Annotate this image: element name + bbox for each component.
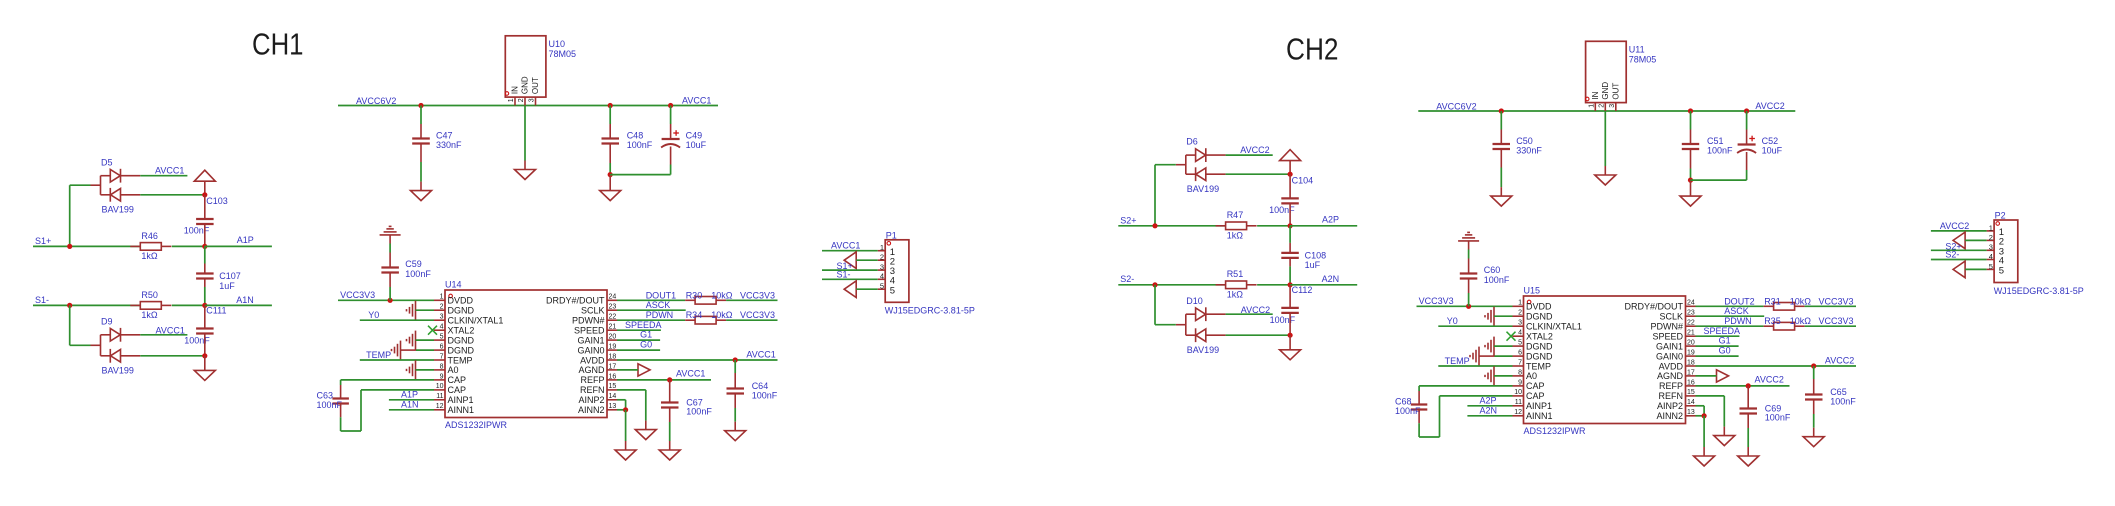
svg-text:23: 23 (609, 304, 617, 311)
wire D6 to trunk (1226, 173, 1291, 175)
wire VCC3V3 to pin1 (1417, 305, 1513, 307)
wire AVCC6V2 rail (338, 105, 718, 107)
svg-text:22: 22 (1687, 320, 1695, 327)
wire pin22 to R35 (1696, 325, 1764, 327)
wire AINN2 pin13 (617, 409, 626, 411)
net label SPEEDA (625, 320, 662, 330)
resistor R47 1k (1216, 210, 1257, 240)
net label G0 (1719, 345, 1731, 355)
capacitor C67 100nF (661, 397, 712, 416)
svg-text:AVCC2: AVCC2 (1240, 145, 1269, 155)
resistor R35 10k pullup (1764, 322, 1805, 330)
net label AVCC2 at REFP (1755, 375, 1784, 385)
wire R46 to trunk (172, 245, 205, 247)
junction AINP2/AINN2 (1702, 413, 1707, 418)
power symbol DGND pin8 (1485, 366, 1494, 385)
wire S1- row left (33, 304, 140, 306)
wire riser S1- to D9 (70, 305, 91, 345)
resistor R51 1k (1216, 269, 1257, 299)
regulator U11 78M05 (1585, 41, 1656, 111)
wire AINN2 down to ground (1703, 416, 1705, 447)
connector P1 WJ15EDGRC-3.81-5P body (878, 230, 975, 315)
power symbol DGND pin2 (407, 301, 416, 320)
svg-text:12: 12 (1514, 409, 1522, 416)
power arrow at AGND pin17 (1717, 370, 1729, 382)
svg-text:REFN: REFN (580, 385, 605, 395)
wire A1P to pin11 (389, 399, 434, 401)
svg-text:D6: D6 (1186, 137, 1198, 147)
svg-text:ASCK: ASCK (646, 300, 671, 310)
svg-text:10uF: 10uF (686, 140, 707, 150)
wire TEMP to pin7 (1438, 365, 1512, 367)
svg-text:3: 3 (880, 263, 884, 272)
wire pin2 DGND (416, 309, 435, 311)
net label G1 (640, 330, 652, 340)
svg-text:G1: G1 (1719, 336, 1731, 346)
wire pin24 to R31 (1696, 305, 1764, 307)
svg-text:21: 21 (1687, 330, 1695, 337)
svg-text:DGND: DGND (1526, 351, 1553, 361)
net label G0 (640, 339, 652, 349)
wire S2- row left (1118, 284, 1225, 286)
wire REFN pin15 to ground (1696, 396, 1725, 427)
junction rail/C47 (418, 103, 423, 108)
net label AVCC2 at pin1 (1940, 221, 1969, 231)
wire arrow to pin2 (1965, 239, 1987, 241)
svg-text:VCC3V3: VCC3V3 (1419, 296, 1454, 306)
svg-text:21: 21 (609, 324, 617, 331)
net label PDWN (1724, 316, 1752, 326)
svg-text:TEMP: TEMP (1445, 356, 1470, 366)
svg-text:A1N: A1N (236, 295, 254, 305)
wire REFP pin16 AVCC1 (617, 379, 711, 381)
wire AVDD to C64 (734, 360, 736, 389)
svg-text:C49: C49 (686, 131, 703, 141)
svg-text:ASCK: ASCK (1724, 306, 1749, 316)
wire arrow to pin2 (856, 259, 878, 261)
svg-text:2: 2 (1989, 233, 1993, 242)
wire Y0 to pin3 (1438, 325, 1512, 327)
svg-text:AINN2: AINN2 (1656, 411, 1683, 421)
svg-text:2: 2 (1599, 104, 1606, 108)
net label S1+ at pin3 (837, 261, 853, 271)
svg-text:AVCC2: AVCC2 (1825, 356, 1854, 366)
wire rail to C47 (420, 106, 422, 139)
svg-text:C63: C63 (317, 390, 334, 400)
wire pin6 DGND (401, 349, 435, 351)
net label S2- at pin4 (1945, 250, 1959, 260)
net label VCC3V3 pullup2 (740, 310, 775, 320)
junction C48/C49 bottom (608, 172, 613, 177)
resistor R31 10k pullup (1764, 303, 1805, 311)
svg-text:5: 5 (1989, 262, 1993, 271)
wire trunk below cap (1289, 313, 1291, 335)
net label AVCC2 lower (1241, 305, 1270, 315)
wire pin17 to arrow (1696, 375, 1717, 377)
ground below C65 (1803, 428, 1824, 447)
svg-text:16: 16 (609, 373, 617, 380)
title CH2 (1286, 31, 1339, 66)
svg-text:REFP: REFP (1659, 381, 1683, 391)
wire pin2 DGND (1494, 315, 1513, 317)
wire R31 to VCC3V3 (1805, 305, 1856, 307)
svg-text:U14: U14 (445, 280, 462, 290)
wire A2P stub (1290, 225, 1357, 227)
connector P2 WJ15EDGRC-3.81-5P body (1987, 211, 2084, 296)
power arrow pin5 (1953, 261, 1965, 278)
net label A2N (1322, 274, 1340, 284)
net label AVCC1 lower (156, 325, 185, 335)
svg-text:3: 3 (1989, 243, 1993, 252)
wire AVCC1 to pin1 (822, 250, 878, 252)
svg-text:4: 4 (880, 272, 884, 281)
svg-text:100nF: 100nF (184, 226, 210, 236)
wire REFN pin15 to ground (617, 390, 646, 421)
svg-text:AVCC1: AVCC1 (676, 369, 705, 379)
svg-text:G1: G1 (640, 330, 652, 340)
svg-text:XTAL2: XTAL2 (448, 326, 475, 336)
junction trunk/D6 (1288, 172, 1293, 177)
svg-text:100nF: 100nF (627, 140, 653, 150)
svg-text:AVDD: AVDD (580, 355, 605, 365)
svg-text:Y0: Y0 (368, 310, 379, 320)
net label VCC3V3 pullup2 (1819, 316, 1854, 326)
svg-text:330nF: 330nF (1516, 146, 1542, 156)
net label A1N (236, 295, 254, 305)
diode D5 BAV199 dual diode (91, 157, 141, 214)
svg-text:VCC3V3: VCC3V3 (740, 310, 775, 320)
svg-text:REFP: REFP (580, 375, 604, 385)
svg-text:A1P: A1P (237, 235, 254, 245)
svg-text:C108: C108 (1305, 251, 1327, 261)
svg-text:10kΩ: 10kΩ (711, 291, 733, 301)
wire trunk upper segment (204, 195, 206, 219)
power symbol DGND bars (1458, 232, 1479, 241)
net label AVCC1 (155, 166, 184, 176)
power arrow at AGND pin17 (638, 364, 650, 376)
svg-text:CLKIN/XTAL1: CLKIN/XTAL1 (448, 316, 504, 326)
svg-text:100nF: 100nF (1707, 146, 1733, 156)
svg-text:6: 6 (440, 343, 444, 350)
svg-text:C111: C111 (206, 306, 226, 316)
wire pin22 to R34 (617, 319, 685, 321)
svg-text:D5: D5 (101, 157, 113, 167)
svg-text:GND: GND (1601, 82, 1610, 100)
svg-text:AVDD: AVDD (1659, 361, 1684, 371)
diode D6 BAV199 dual diode (1176, 137, 1226, 194)
op-amp IC U14 ADS1232IPWR body (434, 280, 617, 431)
svg-text:AGND: AGND (578, 365, 605, 375)
net label TEMP (1445, 356, 1470, 366)
wire rail to C50 (1500, 111, 1502, 144)
ground below U10 (515, 161, 536, 180)
labels R31 (1764, 297, 1811, 307)
svg-text:10kΩ: 10kΩ (1790, 297, 1812, 307)
labels R34 (686, 310, 733, 320)
capacitor C69 100nF (1740, 403, 1791, 422)
svg-text:R46: R46 (141, 231, 158, 241)
ground below REFN (1714, 427, 1735, 446)
svg-text:PDWN: PDWN (1724, 316, 1752, 326)
svg-text:U11: U11 (1629, 45, 1645, 55)
svg-text:S2+: S2+ (1120, 216, 1136, 226)
wire trunk below C107 (204, 279, 206, 306)
svg-text:5: 5 (880, 282, 884, 291)
wire A2N to pin12 (1467, 415, 1512, 417)
svg-text:DGND: DGND (448, 345, 475, 355)
svg-text:WJ15EDGRC-3.81-5P: WJ15EDGRC-3.81-5P (885, 306, 975, 316)
wire U10 GND pin down (524, 106, 526, 161)
wire S2- to pin4 (1931, 259, 1987, 261)
svg-text:AINN2: AINN2 (578, 405, 605, 415)
capacitor C107 1uF (196, 271, 241, 291)
junction AINP2/AINN2 (623, 407, 628, 412)
svg-text:C64: C64 (752, 381, 769, 391)
svg-text:DVDD: DVDD (448, 296, 474, 306)
svg-text:S1-: S1- (837, 269, 851, 279)
svg-text:15: 15 (1687, 389, 1695, 396)
power symbol AVCC1 arrow (194, 170, 215, 195)
svg-text:D10: D10 (1186, 296, 1203, 306)
labels C112 (1270, 285, 1313, 325)
wire A1N stub (205, 304, 272, 306)
svg-text:16: 16 (1687, 379, 1695, 386)
junction VCC3V3/C60 (1466, 304, 1471, 309)
svg-text:1uF: 1uF (219, 281, 235, 291)
wire A1P stub (205, 245, 272, 247)
wire S1+ to pin3 (822, 269, 878, 271)
svg-text:SPEED: SPEED (1652, 332, 1683, 342)
svg-text:XTAL2: XTAL2 (1526, 332, 1553, 342)
junction AVDD/C65 (1811, 363, 1816, 368)
svg-text:10kΩ: 10kΩ (711, 310, 733, 320)
wire C52 bottom (1691, 152, 1747, 180)
wire G0 pin19 (1696, 355, 1739, 357)
power arrow pin2 (844, 252, 856, 269)
wire pin5 DGND (416, 339, 435, 341)
svg-text:C50: C50 (1516, 136, 1533, 146)
svg-text:13: 13 (609, 403, 617, 410)
svg-text:R34: R34 (686, 310, 703, 320)
svg-text:20: 20 (609, 334, 617, 341)
wire C67 to ground (669, 408, 671, 442)
net label S2+ at pin3 (1945, 241, 1961, 251)
wire AVDD pin18 AVCC2 (1696, 365, 1857, 367)
svg-text:23: 23 (1687, 310, 1695, 317)
wire C69 to ground (1747, 414, 1749, 448)
ground below U11 (1595, 166, 1616, 185)
capacitor C63 100nF (332, 399, 349, 404)
svg-text:7: 7 (1518, 359, 1522, 366)
wire pin17 to arrow (617, 369, 638, 371)
diode D9 BAV199 dual diode (91, 316, 141, 375)
svg-text:AINN1: AINN1 (448, 405, 475, 415)
svg-text:AINN1: AINN1 (1526, 411, 1553, 421)
svg-text:R30: R30 (686, 291, 703, 301)
capacitor C47 330nF (412, 131, 462, 151)
svg-text:G0: G0 (640, 339, 652, 349)
wire C59 to pin1 wire (389, 273, 391, 301)
svg-text:IN: IN (511, 86, 520, 94)
svg-text:DRDY#/DOUT: DRDY#/DOUT (1624, 302, 1683, 312)
labels for C63 (317, 390, 343, 410)
wire A2N stub (1290, 284, 1357, 286)
wire AVCC2 from D6 (1226, 154, 1273, 156)
power arrow pin2 (1953, 232, 1965, 249)
svg-text:CLKIN/XTAL1: CLKIN/XTAL1 (1526, 322, 1582, 332)
net label Y0 (368, 310, 379, 320)
svg-text:WJ15EDGRC-3.81-5P: WJ15EDGRC-3.81-5P (1994, 286, 2084, 296)
svg-text:CAP: CAP (448, 385, 467, 395)
svg-text:ADS1232IPWR: ADS1232IPWR (445, 420, 508, 430)
net label A2N at pin12 (1480, 406, 1498, 416)
svg-text:GAIN0: GAIN0 (1656, 351, 1683, 361)
wire C63 loop bottom (341, 390, 434, 431)
svg-text:1: 1 (1989, 223, 1993, 232)
regulator U10 78M05 (505, 36, 576, 106)
svg-text:OUT: OUT (1611, 83, 1620, 100)
resistor R46 1k (130, 231, 171, 261)
svg-text:C65: C65 (1830, 387, 1847, 397)
wire riser S2- to D10 (1155, 285, 1176, 325)
labels for C68 (1395, 396, 1421, 416)
svg-text:AVCC1: AVCC1 (156, 325, 185, 335)
svg-text:9: 9 (1518, 379, 1522, 386)
wire C50 to ground (1500, 149, 1502, 187)
wire D9 to trunk (140, 355, 205, 357)
svg-text:CAP: CAP (1526, 391, 1545, 401)
wire AINP2 pin14 (617, 400, 626, 410)
wire pin6 DGND (1479, 355, 1513, 357)
junction S1+/riser (67, 244, 72, 249)
svg-text:AGND: AGND (1657, 371, 1684, 381)
capacitor C51 100nF (1682, 136, 1733, 156)
svg-text:100nF: 100nF (184, 336, 210, 346)
svg-text:5: 5 (440, 334, 444, 341)
ground below C50 (1491, 187, 1512, 206)
svg-text:17: 17 (609, 363, 617, 370)
wire C49 bottom (610, 147, 670, 175)
svg-text:3: 3 (1609, 104, 1616, 108)
svg-text:VCC3V3: VCC3V3 (1819, 297, 1854, 307)
ground below C47 (411, 182, 432, 201)
svg-text:R47: R47 (1227, 210, 1244, 220)
junction rail/C51 (1688, 108, 1693, 113)
wire pin8 A0 (416, 369, 435, 371)
net label AVCC1 rail (682, 95, 711, 105)
svg-text:AVCC2: AVCC2 (1755, 375, 1784, 385)
svg-text:C51: C51 (1707, 136, 1724, 146)
diode D10 BAV199 dual diode (1176, 296, 1226, 355)
svg-text:1: 1 (1589, 104, 1596, 108)
wire AINP2 pin14 (1696, 406, 1705, 416)
wire arrow to pin5 (1965, 268, 1987, 270)
svg-text:AINP2: AINP2 (578, 395, 604, 405)
svg-text:SCLK: SCLK (1659, 312, 1683, 322)
svg-text:DGND: DGND (1526, 341, 1553, 351)
power symbol DGND bars (380, 226, 401, 235)
svg-text:C107: C107 (219, 271, 241, 281)
wire C65 to ground (1813, 400, 1815, 428)
capacitor C59 100nF (381, 259, 431, 279)
svg-text:100nF: 100nF (686, 407, 712, 417)
svg-text:AVCC1: AVCC1 (746, 350, 775, 360)
svg-text:24: 24 (609, 294, 617, 301)
svg-text:2: 2 (880, 253, 884, 262)
ground below C69 (1738, 447, 1759, 466)
svg-text:14: 14 (609, 393, 617, 400)
wire earth to C60 (1468, 241, 1470, 274)
net label VCC3V3 (1419, 296, 1454, 306)
wire C68 loop bottom (1419, 396, 1512, 437)
junction S2+/riser (1152, 223, 1157, 228)
capacitor C60 100nF (1460, 265, 1510, 285)
wire trunk below C103 (204, 224, 206, 247)
wire REFP to C67 (669, 380, 671, 403)
net label DOUT1 (646, 291, 677, 301)
svg-text:CH2: CH2 (1286, 31, 1339, 66)
wire pin9 CAP left (1419, 386, 1512, 405)
net label AVCC2 rail (1755, 101, 1784, 111)
power symbol AVCC2 arrow (1280, 150, 1301, 175)
svg-text:U10: U10 (549, 39, 566, 49)
net label A1P at pin11 (401, 389, 418, 399)
svg-text:14: 14 (1687, 399, 1695, 406)
svg-text:REFN: REFN (1659, 391, 1684, 401)
svg-text:A0: A0 (1526, 371, 1537, 381)
svg-text:BAV199: BAV199 (102, 204, 134, 214)
junction trunk/D5 (202, 192, 207, 197)
wire S1+ row left (33, 245, 140, 247)
net label Y0 (1447, 316, 1458, 326)
svg-text:100nF: 100nF (752, 391, 778, 401)
junction REFP/C69 (1746, 383, 1751, 388)
svg-text:C103: C103 (206, 196, 228, 206)
power symbol DGND pin5 (1485, 337, 1494, 356)
net label S2+ (1120, 216, 1136, 226)
svg-text:CAP: CAP (1526, 381, 1545, 391)
power symbol DGND pin6 (1470, 347, 1479, 366)
ground below REFN (635, 421, 656, 440)
svg-text:5: 5 (1999, 266, 2004, 277)
svg-text:3: 3 (440, 314, 444, 321)
wire trunk between rows (204, 246, 206, 273)
svg-text:19: 19 (609, 343, 617, 350)
svg-text:SPEED: SPEED (574, 326, 605, 336)
ground below AINN2 (1694, 447, 1715, 466)
svg-text:2: 2 (1518, 310, 1522, 317)
net label DOUT2 (1724, 297, 1755, 307)
wire C47 to ground (420, 144, 422, 182)
ground below C51 (1680, 180, 1701, 206)
svg-text:AVCC1: AVCC1 (682, 95, 711, 105)
junction AVDD/C64 (733, 357, 738, 362)
svg-text:C60: C60 (1484, 265, 1501, 275)
net label S1- at pin4 (837, 269, 851, 279)
wire R50 to trunk (172, 304, 205, 306)
svg-text:22: 22 (609, 314, 617, 321)
capacitor C108 1uF (1281, 251, 1326, 271)
wire U11 GND pin down (1604, 111, 1606, 166)
junction trunk/D9 (202, 353, 207, 358)
wire SPEEDA pin21 (1696, 335, 1740, 337)
svg-text:15: 15 (609, 383, 617, 390)
capacitor C50 330nF (1493, 136, 1543, 156)
junction S2-/riser (1152, 282, 1157, 287)
svg-text:1kΩ: 1kΩ (1227, 231, 1244, 241)
wire REFP pin16 AVCC2 (1696, 385, 1790, 387)
svg-text:7: 7 (440, 353, 444, 360)
